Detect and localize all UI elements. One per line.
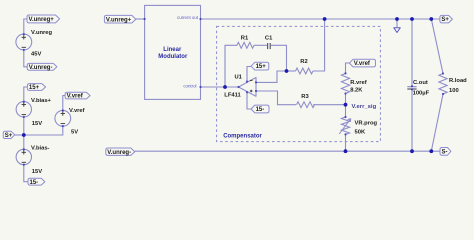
wire feedback node to inverting input [256, 71, 287, 82]
wire C.out bottom to rail [411, 89, 413, 151]
wire R2 up to output rail [313, 19, 325, 71]
voltage source V.vref [55, 110, 71, 126]
svg-text:V.vref: V.vref [67, 94, 84, 100]
flag V.unreg+ (source) [27, 15, 60, 23]
svg-text:100µF: 100µF [413, 90, 430, 96]
svg-text:100: 100 [449, 88, 459, 94]
flag V.unreg- (return rail) [106, 148, 135, 156]
flag 15- (op-amp) [251, 105, 269, 113]
junction R.load top [429, 17, 433, 21]
output arrow symbol [394, 28, 401, 33]
flag V.unreg- (source) [27, 63, 57, 71]
voltage source V.unreg [16, 34, 32, 50]
wire rail to C.out top [411, 19, 413, 86]
wire top output rail [201, 18, 441, 20]
wire R3 to V.err_sig node [313, 104, 345, 106]
wire S+ flag to bias node [15, 134, 24, 136]
wire 15+ flag to V.bias+ top [24, 87, 28, 102]
wire rail to R.load top (slanted) [431, 19, 443, 74]
flag S- (output) [440, 148, 451, 156]
flag 15+ (op-amp) [251, 62, 269, 70]
wire V.vref flag to R.vref [346, 63, 350, 73]
wire V.unreg+ to modulator input [136, 18, 145, 20]
svg-text:R1: R1 [241, 35, 249, 41]
junction feedback/control [223, 85, 227, 89]
svg-text:VR.prog: VR.prog [355, 120, 378, 126]
voltage source V.bias+ [16, 102, 31, 117]
voltage source V.bias- [16, 149, 31, 164]
wire C1 to feedback node [271, 45, 287, 71]
wire V.vref flag to source top [63, 96, 65, 111]
svg-text:S+: S+ [5, 133, 13, 139]
flag V.vref (source) [65, 92, 90, 100]
svg-text:V.bias-: V.bias- [31, 145, 50, 151]
svg-text:R2: R2 [300, 59, 307, 65]
wire V.bias+ bottom to V.bias- top [23, 117, 25, 149]
svg-text:C1: C1 [265, 35, 273, 41]
junction C.out bottom [410, 149, 414, 153]
wire R1 to C1 [254, 44, 267, 46]
junction VR.prog bottom [344, 149, 348, 153]
svg-text:LF411: LF411 [224, 93, 241, 99]
svg-text:S+: S+ [441, 17, 449, 23]
potentiometer VR.prog [341, 117, 349, 134]
svg-text:45V: 45V [31, 52, 41, 58]
wire V.unreg+ flag to source top [24, 19, 27, 34]
flag S+ (output) [440, 15, 453, 23]
resistor R1 [237, 42, 254, 48]
svg-text:15-: 15- [256, 107, 265, 113]
wire feedback node to R2 [287, 70, 296, 72]
svg-text:R.vref: R.vref [350, 80, 367, 86]
svg-text:15+: 15+ [256, 64, 267, 70]
wire R.vref to VR.prog via V.err_sig node [345, 94, 347, 118]
pin connection dots [144, 18, 146, 20]
junction R2 top rail [323, 17, 327, 21]
svg-text:V.err_sig: V.err_sig [352, 104, 377, 110]
capacitor C.out [407, 86, 416, 88]
svg-text:Compensator: Compensator [223, 134, 262, 140]
svg-text:current out: current out [177, 15, 199, 20]
junction C1/R2/inv input [285, 69, 289, 73]
wire output arrow stub [396, 19, 398, 27]
resistor R.load [439, 74, 447, 95]
svg-text:U1: U1 [235, 74, 243, 80]
svg-text:C.out: C.out [413, 80, 428, 86]
svg-text:control: control [183, 83, 196, 88]
flag S+ (bias node) [3, 131, 15, 139]
svg-text:V.unreg-: V.unreg- [107, 150, 131, 156]
wire V.vref source bottom to bias node [24, 126, 63, 135]
junction V.err_sig [344, 103, 348, 107]
svg-text:V.vref: V.vref [69, 108, 85, 114]
flag V.vref (R.vref) [349, 59, 375, 67]
wire 15- power stub [247, 92, 251, 109]
svg-text:8.2K: 8.2K [350, 88, 363, 94]
svg-text:50K: 50K [355, 130, 366, 136]
junction bias node S+ [22, 133, 26, 137]
svg-text:R3: R3 [301, 94, 309, 100]
svg-text:V.bias+: V.bias+ [31, 98, 52, 104]
resistor R2 [296, 68, 314, 74]
wire VR.prog to bottom rail [345, 134, 347, 151]
junction C.out top [410, 17, 414, 21]
svg-text:S-: S- [442, 149, 448, 155]
wire V.bias- bottom to 15- flag [24, 165, 28, 182]
svg-text:Modulator: Modulator [158, 54, 188, 60]
svg-text:R.load: R.load [449, 78, 467, 84]
wire bottom return rail [135, 150, 440, 152]
junction R.load bottom [429, 149, 433, 153]
svg-text:V.vref: V.vref [354, 61, 371, 67]
flag 15+ (bias) [27, 84, 45, 92]
wire noninverting input to R3 [256, 91, 296, 105]
svg-text:15V: 15V [32, 121, 42, 127]
svg-text:5V: 5V [71, 130, 78, 136]
linear modulator block U:mod [145, 5, 201, 99]
compensator dashed boundary [217, 26, 381, 141]
flag V.unreg+ (modulator) [104, 15, 135, 23]
wire 15+ power stub [247, 67, 251, 82]
svg-text:V.unreg+: V.unreg+ [29, 17, 55, 23]
op-amp U1 LF411 (pointing left) [239, 78, 257, 97]
svg-text:V.unreg-: V.unreg- [29, 65, 53, 71]
wire R.load bottom to rail (slanted) [431, 94, 443, 151]
svg-text:15+: 15+ [29, 85, 40, 91]
svg-text:V.unreg: V.unreg [31, 30, 53, 36]
flag 15- (bias) [28, 178, 45, 186]
wire feedback up to R1 [225, 45, 237, 87]
svg-text:15V: 15V [32, 169, 42, 175]
resistor R3 [297, 102, 315, 108]
wire control to op-amp output [201, 86, 239, 88]
capacitor C1 [267, 43, 269, 49]
svg-text:V.unreg+: V.unreg+ [106, 17, 132, 23]
svg-text:15-: 15- [30, 180, 39, 186]
resistor R.vref [341, 73, 349, 93]
wire source bottom to V.unreg- flag [24, 50, 27, 67]
junction arrow stub [395, 17, 399, 21]
svg-text:Linear: Linear [163, 47, 182, 53]
